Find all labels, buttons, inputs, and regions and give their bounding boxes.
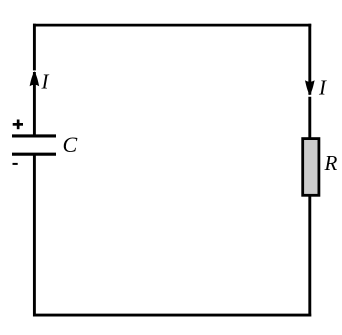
label - (capacitor negative terminal) — [13, 163, 18, 165]
label + (capacitor positive terminal) — [13, 120, 23, 130]
svg-text:I: I — [41, 70, 50, 94]
wire left upper segment (ends at arrow tip gap) — [33, 24, 36, 71]
wire right lower segment (below arrow tip, through resistor, to bottom) — [308, 97, 311, 317]
svg-text:I: I — [318, 76, 327, 100]
resistor R body — [303, 139, 319, 196]
wire right upper segment (ends at arrow tip gap) — [308, 24, 311, 95]
current arrow I (left wire, pointing up) — [30, 71, 40, 86]
capacitor C top plate — [12, 134, 56, 137]
current arrow I (right wire, pointing down) — [305, 80, 315, 95]
capacitor C bottom plate — [12, 153, 56, 156]
wire left lower segment — [33, 153, 36, 317]
wire bottom segment — [33, 314, 311, 317]
wire left middle segment (arrow tip to capacitor top plate) — [33, 72, 36, 137]
svg-text:C: C — [63, 132, 78, 157]
wire top segment — [33, 24, 311, 27]
svg-text:R: R — [324, 151, 338, 175]
